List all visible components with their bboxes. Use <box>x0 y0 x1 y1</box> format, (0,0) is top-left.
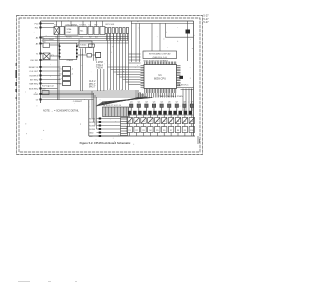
capacitor C1 box <box>60 27 64 35</box>
svg-text:Q8: Q8 <box>183 102 186 104</box>
svg-text:OSC: OSC <box>67 32 72 34</box>
diode matrix inner marks <box>129 121 194 132</box>
svg-text:R2: R2 <box>135 130 137 132</box>
svg-text:U1: U1 <box>158 73 162 77</box>
wire: osc cluster drops <box>98 69 104 91</box>
svg-text:D9: D9 <box>184 121 186 123</box>
wire: bus to CPU left pins <box>108 54 141 85</box>
capacitor C10 (dark) <box>186 30 191 34</box>
column driver labels <box>130 102 193 104</box>
connector J1 (pin header) <box>103 107 129 117</box>
svg-text:T1: T1 <box>36 53 39 55</box>
wire: bus bend to bottom connector <box>92 91 97 129</box>
resistor R17 <box>42 91 49 95</box>
svg-text:A6: A6 <box>36 42 39 45</box>
svg-text:PH2 T: PH2 T <box>89 87 96 89</box>
CPU right pin labels <box>178 83 189 86</box>
wire: CPU bottom bundle <box>139 93 176 98</box>
svg-text:XTAL: XTAL <box>67 28 73 31</box>
svg-text:OSC 4MHZ: OSC 4MHZ <box>66 24 78 26</box>
gate U5 box <box>79 41 92 48</box>
svg-text:R3: R3 <box>142 130 144 132</box>
caption text <box>80 141 131 145</box>
svg-text:GND: GND <box>34 94 39 96</box>
wire: schematic right border <box>192 21 194 136</box>
connector P1 pin labels <box>29 23 39 101</box>
buffer U3 box <box>79 27 87 35</box>
svg-text:74L: 74L <box>80 31 84 33</box>
resistor pack RP1 <box>105 28 129 34</box>
svg-text:D4: D4 <box>149 121 151 123</box>
svg-text:D6: D6 <box>163 121 165 123</box>
oscillator U2 box <box>65 26 78 35</box>
svg-text:EA SS VCC: EA SS VCC <box>178 83 189 86</box>
connector P1 pads <box>39 23 41 101</box>
note arrow 5V <box>71 101 83 103</box>
svg-text:R17 100 C12: R17 100 C12 <box>42 85 55 87</box>
wire: mid horizontal bus <box>42 91 136 97</box>
oscillator U2 label <box>54 24 98 34</box>
connector pad row <box>128 111 192 115</box>
svg-text:C8: C8 <box>59 84 62 86</box>
note text <box>43 110 80 113</box>
svg-text:(SEE FIG. 5-4): (SEE FIG. 5-4) <box>153 57 168 59</box>
transistor row Q1-Q9 <box>130 104 194 111</box>
wire: clock feed pair <box>58 35 60 100</box>
capacitor bank C5-C8 <box>63 67 71 86</box>
svg-text:.1: .1 <box>72 74 75 76</box>
connector J2 block <box>121 118 128 136</box>
svg-text:PH1 T: PH1 T <box>89 84 96 86</box>
wire: horizontal bus under logic row <box>42 37 129 44</box>
wire: L-wire right of label box <box>166 23 194 37</box>
bundle label <box>158 95 183 98</box>
svg-text:Q1: Q1 <box>130 102 133 104</box>
svg-text:BUS REQ: BUS REQ <box>29 88 39 90</box>
svg-text:D5: D5 <box>156 121 158 123</box>
svg-text:8039 CPU: 8039 CPU <box>154 76 166 80</box>
gate U4 box <box>88 27 93 35</box>
svg-text:R8: R8 <box>177 130 179 132</box>
label box sub-caption <box>144 60 169 62</box>
svg-text:C1: C1 <box>89 24 93 26</box>
wire: schematic top border <box>41 20 194 22</box>
capacitor bank labels <box>59 69 74 86</box>
svg-text:XTAL2: XTAL2 <box>96 64 104 67</box>
connector J1 labels <box>103 105 121 107</box>
wire: CPU right drops <box>181 88 194 112</box>
svg-text:.1: .1 <box>72 69 75 71</box>
svg-text:C4: C4 <box>95 37 98 39</box>
trimmer R3 <box>43 43 50 48</box>
svg-text:Q4: Q4 <box>153 102 156 104</box>
svg-text:→ 5 RIGHT: → 5 RIGHT <box>71 101 83 103</box>
svg-text:R5: R5 <box>156 130 158 132</box>
wire: C10 riser <box>187 21 189 61</box>
wire: pad feeds to logic row <box>42 24 94 100</box>
svg-text:R2: R2 <box>89 37 92 39</box>
svg-text:XTAL1 XTAL2 ALE PSEN: XTAL1 XTAL2 ALE PSEN <box>158 95 183 98</box>
svg-text:5-27: 5-27 <box>203 20 209 24</box>
diode matrix row 2 <box>127 127 195 133</box>
svg-text:C6: C6 <box>59 74 62 76</box>
svg-text:74S04: 74S04 <box>80 45 87 47</box>
svg-text:ROW3: ROW3 <box>89 125 96 127</box>
oscillator module U4 label <box>67 60 74 62</box>
diode matrix row 1 <box>127 118 195 124</box>
connector P1 bus line <box>40 21 42 103</box>
svg-text:C7: C7 <box>59 79 62 81</box>
gate U6 box <box>100 27 105 35</box>
gate U5 box <box>94 27 99 35</box>
svg-text:D3: D3 <box>142 121 144 123</box>
crystal Y1 label <box>51 55 54 57</box>
svg-text:D2: D2 <box>135 121 137 123</box>
svg-text:R9: R9 <box>184 130 186 132</box>
svg-text:OSC IN1: OSC IN1 <box>30 60 39 62</box>
svg-text:D10: D10 <box>190 121 193 123</box>
gate U5 label <box>80 45 87 47</box>
svg-text:R1 1K: R1 1K <box>66 37 72 39</box>
oscillator module U4 pin dots <box>59 46 78 58</box>
top border stubs feeding logic row <box>57 21 103 27</box>
svg-text:Q7: Q7 <box>176 102 179 104</box>
svg-text:74S04: 74S04 <box>96 68 103 70</box>
svg-text:RESET IN: RESET IN <box>29 67 39 69</box>
svg-text:R6: R6 <box>163 130 165 132</box>
svg-text:R2: R2 <box>95 24 99 26</box>
svg-text:A4: A4 <box>36 36 39 39</box>
svg-text:Q2: Q2 <box>138 102 141 104</box>
wire: second top bus line <box>131 22 194 24</box>
svg-text:R1: R1 <box>129 130 131 132</box>
resistor pack RP1 label <box>106 24 115 26</box>
svg-text:Q6: Q6 <box>168 102 171 104</box>
svg-text:R10: R10 <box>190 130 193 132</box>
CPU U1 body <box>144 65 177 89</box>
svg-text:INT REQ: INT REQ <box>30 79 39 81</box>
oscillator network labels (dark cluster) <box>96 62 104 70</box>
svg-text:C2: C2 <box>55 37 58 39</box>
svg-text:D1: D1 <box>129 121 131 123</box>
wire: matrix column drops <box>130 115 192 136</box>
wire: misc interconnect <box>50 45 97 61</box>
label box: keyboard display <box>143 51 177 59</box>
svg-text:NMI REQ: NMI REQ <box>29 83 38 85</box>
svg-text:4 MHZ: 4 MHZ <box>96 62 103 64</box>
svg-text:RP1 10K: RP1 10K <box>106 24 115 26</box>
svg-text:P11: P11 <box>35 27 39 29</box>
oscillator module U4 (big box) <box>60 43 77 59</box>
labels under logic row <box>55 37 98 39</box>
wire: U7 output drops <box>81 49 83 92</box>
wire: drops to CPU top <box>132 21 140 62</box>
crystal Y2 (box with X) <box>54 27 59 35</box>
svg-text:4 MHZ: 4 MHZ <box>67 60 74 62</box>
gate U6a box <box>87 54 92 58</box>
capacitor C11 (on CPU right pins) <box>179 76 183 79</box>
svg-text:ROW1: ROW1 <box>89 118 96 120</box>
gate U11 <box>89 44 101 58</box>
svg-text:KEYBOARD DISPLAY: KEYBOARD DISPLAY <box>149 53 171 56</box>
wire: schematic bottom border <box>89 100 195 136</box>
label box text <box>149 53 171 59</box>
resistor R17 label <box>42 85 55 90</box>
svg-text:Figure 5-2. CPU/Clock Board Sc: Figure 5-2. CPU/Clock Board Schematic <box>80 141 131 145</box>
svg-text:ROW4: ROW4 <box>89 129 96 131</box>
svg-text:ROW2: ROW2 <box>89 122 96 124</box>
svg-text:NOTE: → = SCHEMATIC DETAIL: NOTE: → = SCHEMATIC DETAIL <box>43 110 80 113</box>
svg-text:C5: C5 <box>59 69 62 71</box>
svg-text:5V: 5V <box>36 99 39 101</box>
svg-text:Q3: Q3 <box>145 102 148 104</box>
svg-text:R4: R4 <box>149 130 151 132</box>
crystal Y1 <box>43 53 50 60</box>
svg-text:D8: D8 <box>177 121 179 123</box>
svg-text:P10: P10 <box>35 23 40 25</box>
svg-text:Q9: Q9 <box>191 102 194 104</box>
CPU U1 label <box>154 73 166 80</box>
wire: label box riser <box>152 23 160 51</box>
svg-text:U3 74L: U3 74L <box>80 24 88 26</box>
svg-text:R7: R7 <box>170 130 172 132</box>
wire: address/data bus bundle <box>108 34 129 91</box>
wire: U11 drop <box>93 47 95 61</box>
svg-text:CLK OUT: CLK OUT <box>29 71 39 73</box>
svg-text:Q5: Q5 <box>160 102 163 104</box>
svg-text:D7: D7 <box>170 121 172 123</box>
clock net labels (dark cluster 2) <box>89 81 96 89</box>
trimmer R3 label ADJ <box>43 38 55 44</box>
wire: pad row rail <box>128 114 194 116</box>
svg-text:CLK 2: CLK 2 <box>89 81 96 83</box>
buffer U3 label <box>80 31 84 33</box>
svg-text:C3: C3 <box>80 37 83 39</box>
svg-text:GND: GND <box>89 132 94 134</box>
bottom bus lines with pads <box>97 119 121 137</box>
gate U6b box <box>96 52 101 57</box>
wire: CPU fan-out to bus (diagonal bundle) <box>96 91 153 106</box>
op CPU U1 pin fringe <box>141 62 181 94</box>
svg-text:RD/WR L: RD/WR L <box>30 75 40 77</box>
svg-text:Y2: Y2 <box>54 24 57 26</box>
wire: RP1 bottoms to bus <box>106 34 127 41</box>
